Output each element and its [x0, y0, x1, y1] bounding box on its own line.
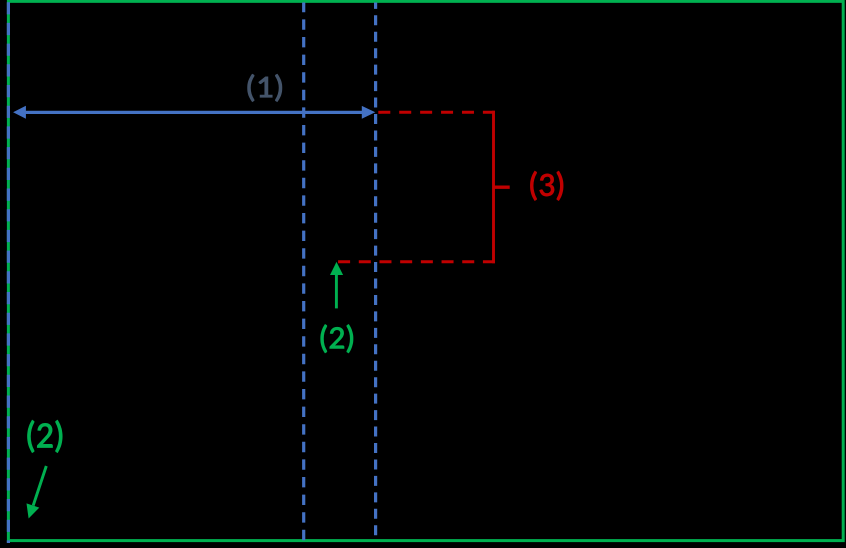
red bracket tick — [494, 185, 510, 188]
blue dashed line (x=375.6) — [374, 3, 377, 541]
red dashed line bottom — [338, 260, 495, 263]
blue dashed line (middle, x=303.7) — [302, 3, 305, 541]
red bracket vertical — [492, 111, 495, 263]
label (3) — [531, 171, 564, 200]
blue arrowhead left — [13, 106, 26, 119]
label (2) middle — [321, 325, 353, 353]
red dashed line top — [378, 111, 495, 114]
label (1) — [248, 74, 282, 101]
blue arrowhead right — [362, 106, 376, 119]
green up arrow (2) shaft — [335, 275, 338, 309]
blue dashed line (left edge) — [7, 0, 10, 543]
blue double-headed arrow (1) shaft — [25, 111, 364, 114]
green up arrowhead — [330, 262, 343, 275]
green diagonal arrowhead — [27, 503, 40, 518]
green diagonal arrow shaft — [33, 466, 46, 506]
label (2) bottom-left — [28, 420, 63, 452]
